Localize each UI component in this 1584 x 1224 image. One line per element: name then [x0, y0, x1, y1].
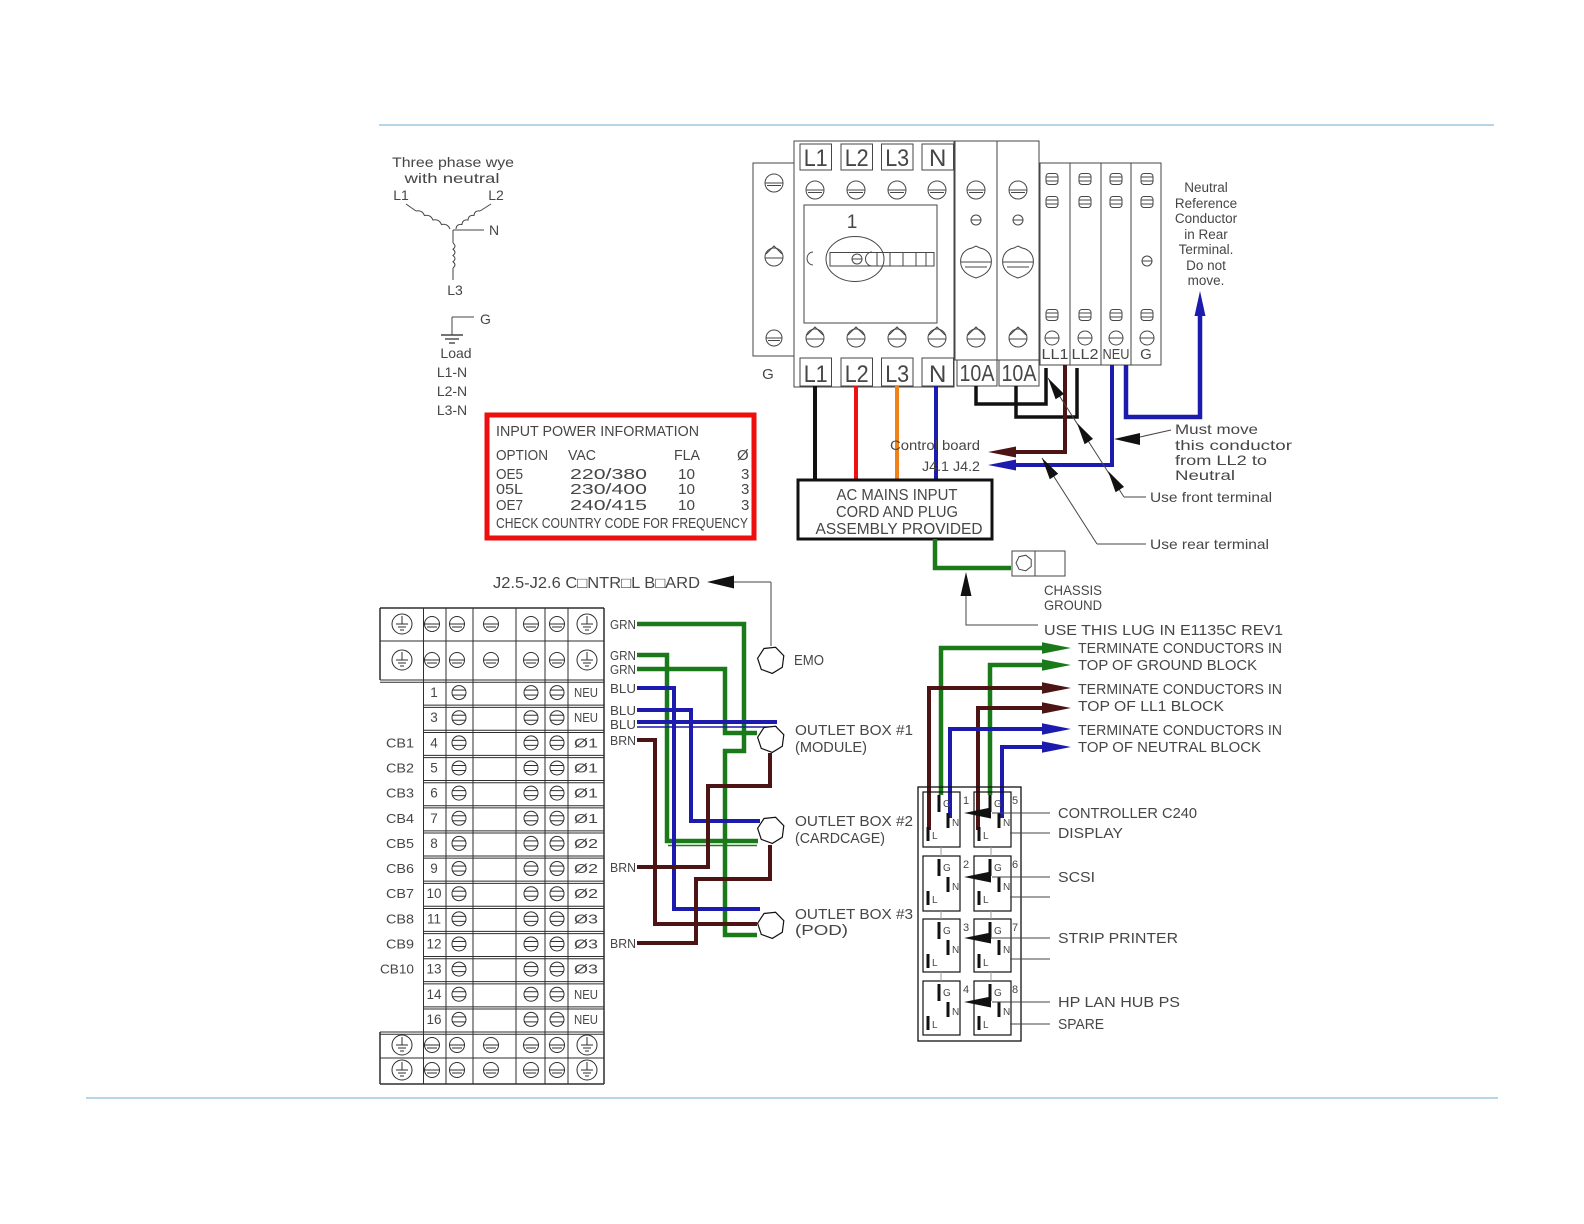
- svg-text:Neutral: Neutral: [1184, 180, 1228, 195]
- svg-text:J4.1 J4.2: J4.1 J4.2: [922, 459, 980, 474]
- svg-text:BRN: BRN: [610, 733, 636, 748]
- svg-text:G: G: [994, 926, 1002, 937]
- switch bottom screws: [806, 327, 824, 347]
- svg-text:Ø2: Ø2: [574, 861, 598, 876]
- svg-text:1: 1: [847, 212, 858, 233]
- svg-text:from LL2 to: from LL2 to: [1175, 452, 1267, 468]
- switch bottom terminal L3: [882, 358, 914, 386]
- wire blu outlet5 neu: [1002, 747, 1046, 818]
- terminal screws: [1045, 331, 1059, 345]
- svg-text:OUTLET BOX #3: OUTLET BOX #3: [795, 906, 913, 923]
- svg-text:1: 1: [963, 795, 969, 807]
- svg-text:GRN: GRN: [610, 648, 636, 663]
- lug arrow: [961, 572, 972, 596]
- wire LL1 to J4.1: [1016, 365, 1065, 452]
- svg-text:L1: L1: [804, 361, 828, 388]
- svg-text:VAC: VAC: [568, 447, 596, 464]
- svg-text:INPUT POWER INFORMATION: INPUT POWER INFORMATION: [496, 423, 699, 440]
- svg-text:TERMINATE CONDUCTORS IN: TERMINATE CONDUCTORS IN: [1078, 681, 1282, 698]
- svg-text:L: L: [983, 958, 989, 969]
- outlet box 3 node: [758, 912, 784, 938]
- neutral rear arrow: [1195, 291, 1206, 316]
- svg-text:N: N: [952, 1007, 959, 1018]
- receptacle 7: [974, 919, 1011, 972]
- svg-text:3: 3: [963, 922, 969, 934]
- svg-text:N: N: [952, 818, 959, 829]
- wire GRN1 outlet3: [637, 624, 757, 935]
- winding L2: [480, 204, 491, 211]
- svg-text:ASSEMBLY PROVIDED: ASSEMBLY PROVIDED: [816, 521, 983, 538]
- receptacle 4: [923, 981, 960, 1035]
- input power box: [487, 415, 754, 538]
- svg-text:G: G: [1140, 346, 1152, 363]
- svg-text:5: 5: [430, 760, 438, 775]
- svg-text:Use rear terminal: Use rear terminal: [1150, 536, 1269, 552]
- svg-text:4: 4: [430, 735, 438, 750]
- svg-text:G: G: [943, 926, 951, 937]
- wire BRN2 outlet1: [637, 753, 770, 867]
- svg-text:8: 8: [430, 836, 438, 851]
- svg-text:GROUND: GROUND: [1044, 597, 1102, 613]
- switch rotor: [826, 237, 884, 282]
- svg-text:G: G: [994, 799, 1002, 810]
- svg-text:AC MAINS INPUT: AC MAINS INPUT: [837, 487, 959, 504]
- svg-text:L2: L2: [845, 361, 869, 388]
- svg-text:L: L: [932, 1020, 938, 1031]
- svg-text:TERMINATE CONDUCTORS IN: TERMINATE CONDUCTORS IN: [1078, 722, 1282, 739]
- svg-text:CB2: CB2: [386, 760, 414, 775]
- svg-text:LL2: LL2: [1072, 346, 1099, 363]
- svg-text:6: 6: [1012, 859, 1018, 871]
- outlet box 2 node: [758, 817, 784, 843]
- svg-text:J2.5-J2.6 C□NTR□L B□ARD: J2.5-J2.6 C□NTR□L B□ARD: [493, 575, 700, 592]
- wire brn outlet5 ll1: [978, 708, 1046, 830]
- svg-text:8: 8: [1012, 984, 1018, 996]
- wire BRN3 outlet2: [637, 845, 770, 943]
- svg-text:N: N: [1003, 818, 1010, 829]
- svg-text:GRN: GRN: [610, 617, 636, 632]
- svg-text:Use front terminal: Use front terminal: [1150, 489, 1272, 505]
- svg-text:CHASSIS: CHASSIS: [1044, 582, 1102, 598]
- wire N blue: [934, 386, 938, 480]
- svg-text:OUTLET BOX #2: OUTLET BOX #2: [795, 813, 913, 830]
- terminal strip dividers: [1069, 163, 1071, 365]
- svg-text:SCSI: SCSI: [1058, 869, 1095, 886]
- fuse screws top: [967, 181, 985, 199]
- svg-text:Ø3: Ø3: [574, 962, 598, 977]
- switch detent: [807, 252, 813, 265]
- svg-text:(MODULE): (MODULE): [795, 739, 867, 756]
- svg-text:NEU: NEU: [1103, 346, 1130, 363]
- terminal table grid: [380, 607, 604, 609]
- svg-text:CB5: CB5: [386, 836, 414, 851]
- svg-text:OPTION: OPTION: [496, 447, 548, 464]
- svg-text:L1: L1: [393, 187, 409, 203]
- svg-text:TOP OF NEUTRAL BLOCK: TOP OF NEUTRAL BLOCK: [1078, 739, 1261, 756]
- switch handle: [830, 253, 934, 267]
- switch bottom terminal N: [922, 358, 954, 386]
- svg-text:CB3: CB3: [386, 786, 414, 801]
- wire fuse1 to LL1: [976, 368, 1046, 404]
- ac mains box: [798, 480, 992, 539]
- svg-text:L: L: [932, 831, 938, 842]
- switch top screws: [806, 181, 824, 199]
- svg-text:Ø3: Ø3: [574, 911, 598, 926]
- svg-text:240/415: 240/415: [570, 497, 647, 514]
- wire grn outlet1 gnd: [941, 648, 1044, 795]
- panel arrows: [964, 808, 991, 819]
- svg-text:L: L: [983, 895, 989, 906]
- wire BLU3 outlet1: [637, 720, 777, 724]
- svg-text:Load: Load: [440, 345, 471, 361]
- svg-text:CB1: CB1: [386, 735, 414, 750]
- svg-text:LL1: LL1: [1042, 346, 1069, 363]
- svg-text:N: N: [929, 361, 946, 388]
- svg-text:Must move: Must move: [1175, 421, 1258, 437]
- ground pole column: [753, 163, 794, 356]
- switch top terminal L1: [800, 144, 832, 170]
- leader blank 6: [1010, 896, 1050, 898]
- ground pole screws: [765, 174, 783, 192]
- svg-text:Ø2: Ø2: [574, 886, 598, 901]
- svg-text:10: 10: [678, 497, 695, 514]
- EMO switch: [758, 647, 784, 673]
- svg-text:10A: 10A: [960, 360, 996, 386]
- svg-text:G: G: [943, 988, 951, 999]
- svg-text:BLU: BLU: [610, 703, 636, 718]
- leader SCSI: [992, 876, 1050, 878]
- svg-text:EMO: EMO: [794, 652, 824, 669]
- svg-text:STRIP PRINTER: STRIP PRINTER: [1058, 930, 1178, 947]
- svg-text:TOP OF LL1 BLOCK: TOP OF LL1 BLOCK: [1078, 698, 1224, 715]
- svg-text:G: G: [994, 988, 1002, 999]
- leader blank 7: [1010, 958, 1050, 960]
- bottom rule: [86, 1097, 1498, 1099]
- svg-text:6: 6: [430, 786, 438, 801]
- svg-text:TOP OF GROUND BLOCK: TOP OF GROUND BLOCK: [1078, 657, 1257, 674]
- switch top terminal L2: [841, 144, 873, 170]
- winding L1: [406, 204, 416, 211]
- fuse label 10A: [999, 360, 1039, 386]
- node N wire: [453, 229, 484, 231]
- leader STRIP PRINTER: [992, 937, 1050, 939]
- wire brn outlet1 ll1: [929, 688, 1046, 830]
- svg-text:move.: move.: [1188, 273, 1225, 288]
- svg-text:NEU: NEU: [574, 710, 598, 725]
- svg-text:05L: 05L: [496, 481, 523, 498]
- terminal screws: [1046, 310, 1058, 321]
- svg-text:L3: L3: [885, 145, 909, 172]
- svg-text:13: 13: [426, 962, 441, 977]
- svg-text:(POD): (POD): [795, 922, 848, 939]
- svg-text:Control board: Control board: [890, 438, 980, 453]
- svg-text:L: L: [932, 958, 938, 969]
- wire BRN1 outlet3: [637, 740, 757, 924]
- svg-text:NEU: NEU: [574, 685, 598, 700]
- svg-text:L1: L1: [804, 145, 828, 172]
- wire L2 red: [854, 386, 858, 480]
- svg-text:12: 12: [426, 936, 441, 951]
- svg-text:G: G: [762, 366, 774, 383]
- terminal screws: [1046, 197, 1058, 208]
- svg-text:(CARDCAGE): (CARDCAGE): [795, 830, 885, 847]
- svg-text:CORD AND PLUG: CORD AND PLUG: [836, 504, 958, 521]
- switch top terminal L3: [882, 144, 914, 170]
- svg-text:HP LAN HUB PS: HP LAN HUB PS: [1058, 994, 1180, 1011]
- svg-text:3: 3: [741, 497, 749, 514]
- ground lead G: [452, 316, 474, 318]
- svg-text:CB7: CB7: [386, 886, 414, 901]
- front terminal leader: [1124, 496, 1146, 498]
- svg-text:Neutral: Neutral: [1175, 467, 1235, 483]
- wire green chassis: [935, 539, 1011, 568]
- receptacle 5: [974, 792, 1011, 847]
- svg-text:L3-N: L3-N: [437, 402, 467, 418]
- wire BLU1 outlet3: [637, 688, 760, 909]
- svg-text:L2-N: L2-N: [437, 383, 467, 399]
- svg-text:L3: L3: [447, 282, 463, 298]
- svg-text:L1-N: L1-N: [437, 364, 467, 380]
- fuse F1 cap: [961, 246, 992, 278]
- svg-text:CB4: CB4: [386, 811, 414, 826]
- wire L3 orange: [895, 386, 899, 480]
- svg-text:Ø1: Ø1: [574, 786, 598, 801]
- svg-text:OE7: OE7: [496, 497, 523, 514]
- switch face: [804, 205, 937, 323]
- svg-text:this conductor: this conductor: [1175, 437, 1292, 453]
- svg-text:L: L: [983, 1020, 989, 1031]
- svg-text:10A: 10A: [1002, 360, 1038, 386]
- svg-text:Ø2: Ø2: [574, 836, 598, 851]
- svg-text:CONTROLLER C240: CONTROLLER C240: [1058, 805, 1197, 822]
- svg-text:Reference: Reference: [1175, 196, 1237, 211]
- switch body: [794, 141, 954, 387]
- wire GRN2 outlet2: [637, 655, 758, 841]
- svg-text:NEU: NEU: [574, 1012, 598, 1027]
- svg-text:L: L: [983, 831, 989, 842]
- svg-text:Ø1: Ø1: [574, 735, 598, 750]
- receptacle 6: [974, 856, 1011, 911]
- svg-text:3: 3: [741, 481, 749, 498]
- svg-text:L2: L2: [845, 145, 869, 172]
- svg-text:L2: L2: [488, 187, 504, 203]
- svg-text:1: 1: [430, 685, 438, 700]
- winding L3: [452, 230, 454, 243]
- fuse screws small: [971, 215, 981, 225]
- svg-text:CHECK COUNTRY CODE FOR FREQUEN: CHECK COUNTRY CODE FOR FREQUENCY: [496, 515, 748, 532]
- svg-text:2: 2: [963, 859, 969, 871]
- fuse holder F2: [997, 141, 1039, 360]
- outlet box 1 node: [758, 726, 784, 752]
- svg-text:G: G: [480, 311, 491, 327]
- svg-text:GRN: GRN: [610, 662, 636, 677]
- svg-text:N: N: [1003, 1007, 1010, 1018]
- switch bottom terminal L2: [841, 358, 873, 386]
- wire BLU2 outlet2: [637, 710, 760, 821]
- svg-text:N: N: [489, 222, 499, 238]
- svg-text:9: 9: [430, 861, 438, 876]
- svg-text:Ø3: Ø3: [574, 936, 598, 951]
- svg-text:NEU: NEU: [574, 987, 598, 1002]
- table ground rows: [392, 614, 412, 634]
- receptacle 2: [923, 856, 960, 911]
- switch top terminal N: [922, 144, 954, 170]
- receptacle 1: [923, 792, 960, 847]
- svg-text:Ø1: Ø1: [574, 760, 598, 775]
- svg-text:11: 11: [427, 911, 441, 926]
- svg-text:CB10: CB10: [380, 962, 414, 977]
- svg-text:TERMINATE CONDUCTORS IN: TERMINATE CONDUCTORS IN: [1078, 640, 1282, 657]
- leader CONTROLLER: [992, 812, 1050, 814]
- svg-text:10: 10: [426, 886, 441, 901]
- leader DISPLAY: [1010, 832, 1050, 834]
- wire NEU to J4.2: [1016, 365, 1112, 465]
- svg-text:N: N: [1003, 945, 1010, 956]
- svg-text:G: G: [943, 863, 951, 874]
- svg-text:Ø1: Ø1: [574, 811, 598, 826]
- svg-text:5: 5: [1012, 795, 1018, 807]
- wire blu outlet1 neu: [950, 729, 1046, 818]
- svg-text:14: 14: [426, 987, 442, 1002]
- switch bottom terminal L1: [800, 358, 832, 386]
- svg-text:Do not: Do not: [1186, 258, 1226, 273]
- wire grn outlet5 gnd: [990, 665, 1046, 795]
- svg-text:BRN: BRN: [610, 936, 636, 951]
- rear terminal leader: [1097, 543, 1146, 545]
- svg-text:7: 7: [430, 811, 438, 826]
- wire GRN3 outlet1: [637, 669, 757, 733]
- svg-text:7: 7: [1012, 922, 1018, 934]
- svg-text:with neutral: with neutral: [403, 170, 499, 186]
- svg-text:BLU: BLU: [610, 681, 636, 696]
- svg-text:G: G: [943, 799, 951, 810]
- svg-text:4: 4: [963, 984, 969, 996]
- svg-text:230/400: 230/400: [570, 481, 647, 498]
- fuse label 10A: [957, 360, 997, 386]
- svg-text:N: N: [1003, 882, 1010, 893]
- svg-text:BLU: BLU: [610, 717, 636, 732]
- svg-text:L: L: [932, 895, 938, 906]
- wire L1 black: [813, 386, 817, 480]
- terminal strip: [1040, 163, 1161, 365]
- svg-text:Conductor: Conductor: [1175, 211, 1238, 226]
- svg-text:BRN: BRN: [610, 860, 636, 875]
- svg-text:G: G: [994, 863, 1002, 874]
- svg-text:CB8: CB8: [386, 911, 414, 926]
- top rule: [379, 124, 1494, 126]
- svg-text:16: 16: [426, 1012, 441, 1027]
- svg-text:L3: L3: [885, 361, 909, 388]
- fuse holder F1: [955, 141, 997, 360]
- svg-text:Ø: Ø: [737, 447, 749, 464]
- fuse screws bottom: [967, 327, 985, 347]
- svg-text:DISPLAY: DISPLAY: [1058, 825, 1123, 842]
- svg-text:N: N: [952, 882, 959, 893]
- svg-text:N: N: [929, 145, 946, 172]
- neutral rear wire: [1126, 312, 1200, 417]
- svg-text:CB9: CB9: [386, 936, 414, 951]
- receptacle 8: [974, 981, 1011, 1035]
- terminal small screw: [1142, 256, 1152, 266]
- svg-text:N: N: [952, 945, 959, 956]
- svg-text:USE THIS LUG IN E1135C REV1: USE THIS LUG IN E1135C REV1: [1044, 622, 1283, 639]
- svg-text:Terminal.: Terminal.: [1179, 242, 1234, 257]
- chassis lug box: [1012, 551, 1065, 576]
- svg-text:SPARE: SPARE: [1058, 1016, 1104, 1033]
- ground symbol: [441, 334, 463, 336]
- receptacle 3: [923, 919, 960, 972]
- svg-text:in Rear: in Rear: [1184, 227, 1228, 242]
- wire fuse2 to LL2: [1016, 368, 1077, 417]
- svg-text:FLA: FLA: [674, 447, 700, 464]
- outlet panel: [918, 787, 1021, 1041]
- svg-text:10: 10: [678, 481, 695, 498]
- svg-text:CB6: CB6: [386, 861, 414, 876]
- receptacle links: [940, 847, 942, 856]
- terminal screws: [1046, 174, 1058, 185]
- svg-text:Three phase wye: Three phase wye: [392, 154, 514, 170]
- fuse F2 cap: [1003, 246, 1034, 278]
- svg-text:3: 3: [430, 710, 438, 725]
- leader HP LAN HUB PS: [992, 1001, 1050, 1003]
- leader SPARE: [1010, 1023, 1050, 1025]
- svg-text:OUTLET BOX #1: OUTLET BOX #1: [795, 722, 913, 739]
- must move arrow: [1114, 433, 1140, 445]
